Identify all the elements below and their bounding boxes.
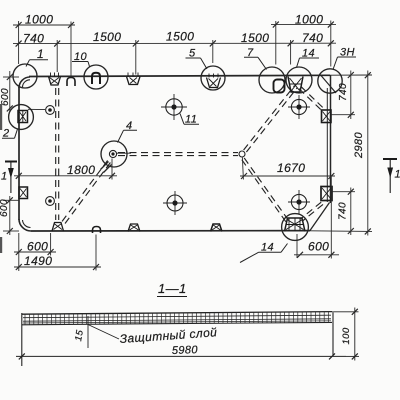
dim line 600 bottom-right <box>294 254 339 256</box>
svg-text:1—1: 1—1 <box>158 281 187 296</box>
bottom edge insert (hatched cup) at x=57 <box>52 223 64 232</box>
top edge bell insert at x=71 <box>67 78 75 87</box>
balloon circle 4 <box>101 141 127 167</box>
top-right corner slash mark <box>321 76 336 94</box>
extension line x=331 top <box>330 21 332 67</box>
dashed sling diagonal junction to top insert 14 <box>244 86 295 151</box>
svg-text:1670: 1670 <box>277 161 305 175</box>
section right edge <box>332 311 334 356</box>
left 600 top dim line <box>9 71 11 112</box>
bottom-left rounded corner outer arc <box>19 219 31 231</box>
dim row1 right line (1000) <box>271 24 336 26</box>
extension below junction <box>242 158 243 180</box>
right 740 bottom dim line <box>350 188 352 236</box>
dim line 2980 <box>367 71 369 236</box>
leader from right edge lower insert <box>333 191 356 193</box>
svg-text:2: 2 <box>2 128 10 140</box>
leader balloon 14 bottom <box>240 244 288 263</box>
leader from right edge upper insert <box>332 114 356 116</box>
top-left rounded corner inner arc <box>23 80 31 87</box>
left 600 bottom extension at bottom edge <box>3 230 19 232</box>
dim row2 chained line (740 1500 1500 1500 740) <box>13 42 336 44</box>
right edge upper insert <box>322 110 332 123</box>
extension line x=291 <box>290 40 292 65</box>
scan edge smudge upper <box>0 104 2 130</box>
scan edge smudge lower <box>0 237 2 253</box>
section bottom line / 5980 dim line <box>16 355 346 357</box>
top-left rounded corner outer arc <box>19 77 30 88</box>
svg-text:1800: 1800 <box>67 163 95 177</box>
svg-text:2980: 2980 <box>353 131 365 159</box>
extension line x=276 <box>275 21 277 65</box>
insert cup inside balloon 5 <box>207 78 221 88</box>
svg-text:5: 5 <box>189 48 196 60</box>
bottom edge bell insert at x=96 <box>93 227 101 234</box>
svg-text:600: 600 <box>308 240 329 254</box>
svg-text:10: 10 <box>74 51 88 63</box>
svg-text:4: 4 <box>126 120 133 132</box>
extension below balloon 4 anchor <box>111 159 113 180</box>
right edge extension line down to 600 dim <box>330 176 332 259</box>
dim line 1800 <box>14 175 117 177</box>
dim line 600 bottom-left <box>14 251 56 253</box>
anchor point inside balloon 4 <box>109 150 116 157</box>
balloon circle 2 <box>9 105 34 130</box>
section mesh band top line <box>22 312 332 315</box>
right section mark 1 <box>383 158 397 160</box>
svg-text:1000: 1000 <box>295 13 323 27</box>
left edge insert inside balloon 2 <box>18 111 28 123</box>
bottom-right corner chamfer <box>310 203 330 231</box>
bottom edge insert (cup) at x=216 <box>211 224 223 232</box>
svg-text:14: 14 <box>302 48 315 60</box>
small anchor circle left lower <box>46 197 55 206</box>
balloon circle 5 <box>201 66 225 90</box>
hatched cup insert inside balloon 14 top <box>288 77 303 93</box>
dashed sling diagonal balloon4 to bottom-left insert <box>59 161 107 226</box>
svg-text:1500: 1500 <box>93 30 121 44</box>
tick marks row2 <box>16 40 334 46</box>
leader balloon 4 <box>118 130 138 142</box>
balloon circle 1 (top-left corner detail) <box>13 64 37 88</box>
balloon circle 10 <box>84 65 108 89</box>
right edge lower insert <box>321 187 332 201</box>
dashed sling diagonal right edge insert to bottom balloon 14 <box>300 202 321 219</box>
tick marks 100 <box>352 309 358 360</box>
leader balloon 2 <box>2 129 18 138</box>
extension line x=136 <box>135 40 137 75</box>
balloon circle 3N <box>318 69 342 93</box>
short line from balloon4 anchor to dashed line <box>117 152 132 154</box>
svg-text:600: 600 <box>0 88 11 106</box>
slab bottom edge <box>31 230 310 232</box>
svg-text:100: 100 <box>341 327 352 344</box>
strand target bottom-right <box>291 194 306 209</box>
svg-text:740: 740 <box>338 83 349 101</box>
section mesh band bottom line <box>22 322 332 324</box>
balloon circle 14 top <box>286 67 312 93</box>
leader balloon 14 top <box>297 58 320 68</box>
strand target top-right <box>291 99 306 114</box>
svg-text:5980: 5980 <box>172 344 199 357</box>
extension below balloon 14 bottom <box>296 234 298 258</box>
leader to protective layer text <box>88 325 119 340</box>
extension x=96 <box>95 235 97 271</box>
left 600 top extension at top edge <box>3 76 19 78</box>
leader balloon 7 <box>244 57 267 69</box>
svg-text:1500: 1500 <box>166 30 194 44</box>
section left edge <box>21 313 23 366</box>
insert n-shape inside balloon 10 <box>92 73 100 84</box>
dim 100 extension bottom <box>346 355 359 357</box>
leader balloon 3N <box>333 57 356 70</box>
dashed sling diagonal top insert 14 to right edge insert <box>301 87 325 110</box>
svg-text:1: 1 <box>37 47 44 61</box>
bottom-left rounded corner inner arc <box>23 220 31 228</box>
dim 100 extension top <box>334 311 359 313</box>
dim line 1670 <box>240 175 335 177</box>
dim 100 vertical line <box>354 308 356 361</box>
svg-text:1: 1 <box>1 171 8 183</box>
svg-text:740: 740 <box>302 31 323 45</box>
svg-text:3Н: 3Н <box>340 47 355 59</box>
svg-text:740: 740 <box>23 32 44 46</box>
svg-text:1490: 1490 <box>24 254 52 268</box>
section title underline <box>157 296 187 298</box>
svg-text:1: 1 <box>395 169 400 181</box>
svg-text:15: 15 <box>73 329 86 342</box>
top edge insert (hatched cup) at x=54 <box>49 77 61 86</box>
leader balloon 1 <box>26 60 48 67</box>
svg-text:7: 7 <box>247 47 254 59</box>
slab left edge <box>18 87 20 220</box>
svg-text:14: 14 <box>261 242 274 254</box>
extension line x=213 <box>212 40 214 63</box>
left section mark 1 <box>5 161 17 163</box>
slab right edge inner line <box>326 88 328 202</box>
svg-text:11: 11 <box>185 114 197 126</box>
extension line x=71 <box>70 22 72 76</box>
bottom edge extension to right dims <box>310 230 372 233</box>
break marks on diagonal below balloon 4 <box>101 162 109 170</box>
dim row1 left line (1000) <box>13 24 75 26</box>
extension x=51 <box>50 233 52 256</box>
svg-text:600: 600 <box>0 199 10 217</box>
tick marks 5980 <box>19 353 335 359</box>
extension line x=57 <box>56 40 58 72</box>
leader balloon 11 <box>180 114 199 125</box>
sling junction node circle <box>239 151 245 157</box>
left edge lower insert <box>19 187 28 199</box>
dashed sling diagonal junction to bottom balloon 14 <box>244 158 288 220</box>
right 740 top dim line <box>350 71 352 120</box>
balloon circle 14 bottom <box>282 214 309 241</box>
leader from balloon2 insert to anchor circle <box>28 108 45 110</box>
tick marks row1 <box>16 22 334 28</box>
left 600 bottom extension at insert <box>3 199 19 201</box>
svg-text:1500: 1500 <box>241 31 269 45</box>
bottom edge insert (cup) at x=133 <box>128 224 140 232</box>
svg-text:1000: 1000 <box>25 13 53 27</box>
extension line x=19 top <box>18 21 20 64</box>
dim line 1490 <box>14 266 101 268</box>
left 600 bottom dim line <box>9 196 11 235</box>
slab right edge outer line <box>330 76 332 204</box>
small anchor circle left upper <box>46 106 55 115</box>
dashed horizontal sling line y=154 <box>118 152 238 154</box>
top edge extension to right dims <box>330 74 372 76</box>
hatched cup insert inside balloon 14 bottom <box>285 218 306 232</box>
strand target top-left <box>166 99 182 115</box>
extension x=19 below bottom edge <box>18 233 20 271</box>
hole inside balloon 7 <box>274 80 285 93</box>
svg-text:Защитный слой: Защитный слой <box>119 325 217 346</box>
dashed vertical axis line x=57 <box>55 88 57 220</box>
leader balloon 10 <box>72 62 90 67</box>
dim 15 vertical line <box>87 316 89 348</box>
top edge insert (cup with ticks) at x=133 <box>127 77 141 85</box>
strand target bottom-left <box>167 195 183 211</box>
leader balloon 5 <box>186 58 208 69</box>
balloon circle 7 <box>259 67 285 93</box>
section mesh band inner line 2 <box>23 319 331 321</box>
svg-text:740: 740 <box>338 202 349 220</box>
section mesh band vertical hatch <box>25 312 329 325</box>
slab top edge <box>29 75 330 76</box>
svg-text:600: 600 <box>27 240 48 254</box>
section mesh band inner line 1 <box>23 315 331 318</box>
